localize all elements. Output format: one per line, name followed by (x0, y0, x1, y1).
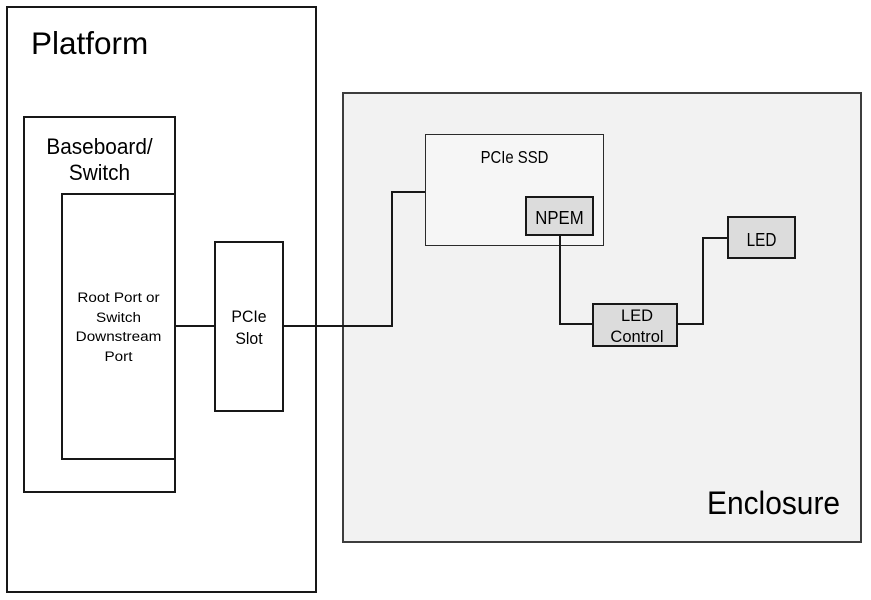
pcie ssd label (438, 148, 590, 166)
led label (732, 231, 791, 249)
platform box (6, 6, 317, 593)
baseboard label (27, 134, 172, 186)
led control box (592, 303, 678, 347)
wire npem to ledcontrol (559, 323, 592, 325)
wire rootport-slot (176, 325, 214, 327)
wire into led (702, 237, 727, 239)
pcie slot box (214, 241, 284, 412)
enclosure label (707, 487, 840, 520)
pcie ssd box (425, 134, 604, 246)
wire npem down (559, 236, 561, 325)
wire slot-right (284, 325, 393, 327)
wire up to led (702, 237, 704, 325)
pcie slot label (216, 306, 281, 349)
platform label (31, 27, 148, 59)
wire ledcontrol right (678, 323, 704, 325)
root port box (61, 193, 176, 460)
npem label (527, 209, 591, 227)
led control label (595, 305, 678, 347)
baseboard/switch box (23, 116, 176, 493)
npem box (525, 196, 594, 236)
wire vertical up to ssd level (391, 191, 393, 327)
led box (727, 216, 796, 259)
enclosure box (342, 92, 862, 543)
wire into ssd (393, 191, 425, 193)
root port label (54, 288, 184, 366)
